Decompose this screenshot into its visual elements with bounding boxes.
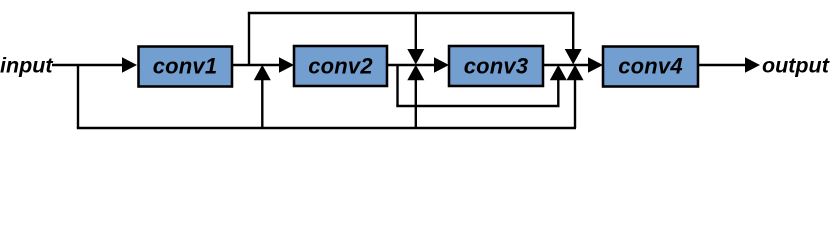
wire: conv2 to conv3	[387, 64, 443, 66]
wire: input to conv1	[52, 64, 130, 66]
wire: conv1 to conv2	[232, 64, 288, 66]
wire: top line drop to conv3 merge	[415, 13, 417, 52]
wire: conv2 skip rise to conv4 merge	[557, 78, 559, 107]
merge arrow up from input before conv4	[567, 65, 584, 80]
svg-text:conv2: conv2	[308, 54, 373, 79]
wire: riser input to conv3 merge	[415, 78, 417, 128]
conv1 box	[139, 47, 233, 87]
wire: conv2 output tap down	[396, 64, 398, 106]
arrowhead into conv2	[279, 57, 294, 72]
arrowhead to output	[745, 57, 760, 72]
arrowhead into conv1	[122, 57, 137, 72]
merge arrow up from conv2 before conv4	[550, 65, 567, 80]
svg-text:conv3: conv3	[464, 54, 529, 79]
wire: conv4 to output	[698, 64, 750, 66]
wire: top line conv1 skip bus	[248, 12, 575, 14]
merge arrow up before conv2	[254, 65, 271, 80]
arrowhead into conv3	[434, 57, 449, 72]
merge arrow down before conv4	[565, 49, 582, 65]
conv2 box	[294, 46, 387, 86]
merge arrow down before conv3	[407, 49, 424, 65]
wire: input drop to bottom bus	[77, 64, 79, 128]
wire: riser input to conv2 merge	[261, 78, 263, 128]
conv4 box	[603, 47, 698, 87]
svg-text:conv4: conv4	[618, 54, 683, 79]
wire: conv3 to conv4	[543, 64, 597, 66]
svg-text:input: input	[0, 53, 53, 77]
arrowhead into conv4	[588, 57, 603, 72]
wire: conv1 output tap up	[248, 13, 250, 66]
svg-text:output: output	[762, 53, 830, 77]
merge arrow up before conv3	[407, 65, 424, 80]
svg-text:conv1: conv1	[153, 54, 218, 79]
wire: conv2 skip line	[396, 105, 559, 107]
wire: bottom input bus	[77, 127, 576, 129]
wire: bus rise to conv4 merge	[574, 78, 576, 128]
wire: top line drop to conv4 merge	[572, 13, 574, 52]
conv3 box	[449, 46, 543, 86]
